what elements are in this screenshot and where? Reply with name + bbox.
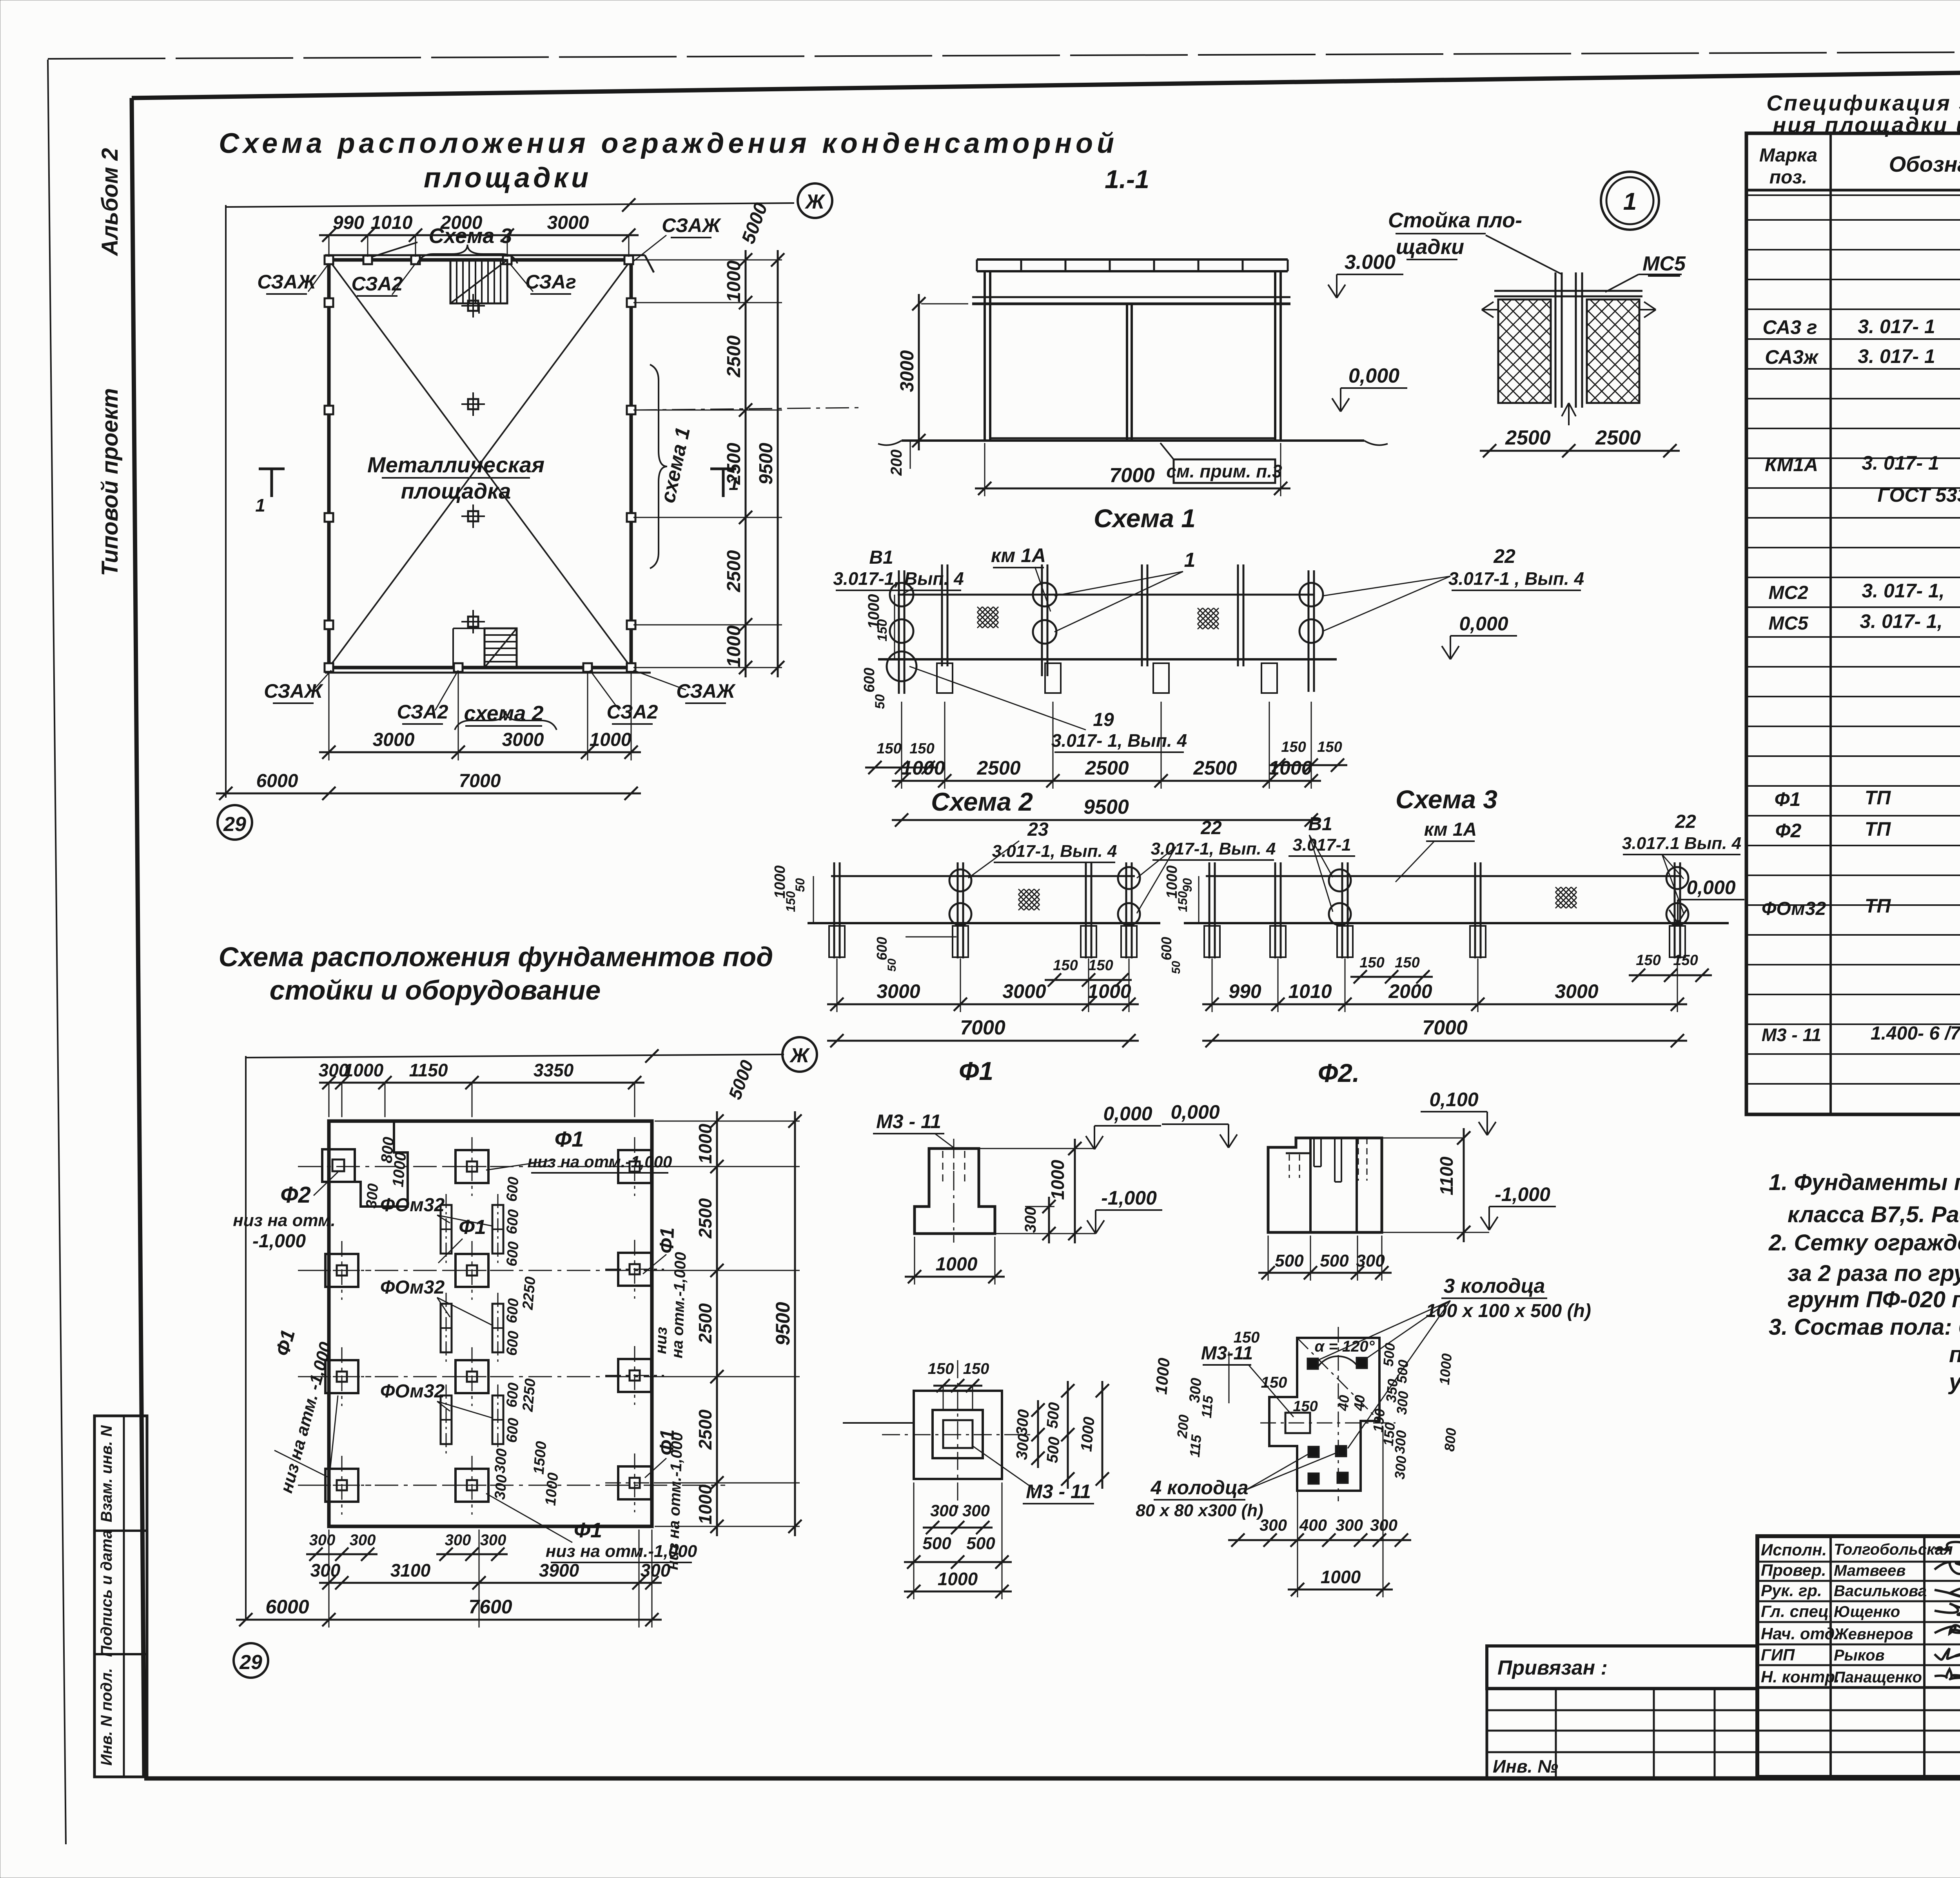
svg-text:площадки: площадки [424, 162, 592, 194]
svg-text:ФОм32: ФОм32 [380, 1277, 445, 1298]
svg-text:300: 300 [363, 1183, 381, 1209]
svg-text:1. Фундаменты под столбы ог: 1. Фундаменты под столбы ограждения выпо… [1769, 1170, 1960, 1195]
svg-text:3 колодца: 3 колодца [1444, 1275, 1545, 1297]
F1 anchor dashes [942, 1151, 944, 1182]
svg-text:подстилающий слой из бетона: подстилающий слой из бетона класса В7,5 … [1949, 1342, 1960, 1367]
svg-text:2250: 2250 [519, 1378, 539, 1413]
F1 foundation outline [915, 1149, 995, 1234]
svg-text:40: 40 [1335, 1394, 1352, 1412]
svg-text:90: 90 [1180, 878, 1194, 892]
section 1-1 ground line [902, 439, 1364, 442]
svg-text:М3 - 11: М3 - 11 [1026, 1481, 1091, 1502]
svg-text:Схема 3: Схема 3 [1396, 785, 1497, 814]
svg-text:300: 300 [445, 1531, 471, 1549]
svg-text:3. 017- 1,: 3. 017- 1, [1862, 580, 1944, 602]
svg-text:300: 300 [350, 1531, 376, 1549]
svg-text:1000: 1000 [901, 757, 945, 779]
schema3 dims [1202, 1003, 1687, 1005]
svg-text:50: 50 [873, 694, 887, 709]
plan1 fence bottom double line [325, 672, 651, 674]
svg-text:Гл. спец.: Гл. спец. [1761, 1602, 1833, 1620]
svg-text:300: 300 [1392, 1455, 1410, 1480]
schema3 circles [1329, 869, 1351, 891]
svg-text:3100: 3100 [390, 1560, 431, 1580]
svg-text:3000: 3000 [502, 729, 544, 750]
section 1-1 elevation marks [1337, 274, 1403, 275]
svg-text:300: 300 [1392, 1430, 1410, 1454]
svg-text:ГИП: ГИП [1761, 1646, 1795, 1664]
svg-text:Стойка пло-: Стойка пло- [1388, 209, 1522, 232]
svg-text:Ф2: Ф2 [1775, 820, 1802, 842]
svg-text:6000: 6000 [265, 1596, 309, 1618]
F1 elevation marks [1094, 1125, 1161, 1127]
node hatched concrete [1498, 299, 1551, 403]
plan2 axis dashdot lines [298, 1166, 725, 1167]
plan2 left vertical line [245, 1056, 247, 1620]
F1 bottom dim [905, 1276, 1005, 1278]
svg-text:300: 300 [930, 1501, 958, 1520]
section 1-1 left dim 3000 [918, 294, 920, 450]
svg-text:2500: 2500 [724, 443, 744, 485]
svg-text:1000: 1000 [343, 1060, 384, 1080]
svg-text:150: 150 [909, 740, 934, 757]
plan2 F2 top-left foundation [330, 1123, 408, 1207]
schema2 circles [949, 869, 971, 891]
svg-text:150: 150 [1636, 952, 1661, 969]
svg-text:1010: 1010 [371, 212, 413, 233]
node posts [1555, 272, 1557, 408]
plan2 FOm32 equipment foundations [441, 1205, 452, 1254]
svg-text:класса В7,5. Расход бетона: класса В7,5. Расход бетона на фундаменты… [1788, 1202, 1960, 1227]
plan1 axis line with Zh [226, 203, 794, 207]
detail 4-pocket foundation plan [1269, 1338, 1379, 1491]
svg-text:Матвеев: Матвеев [1834, 1562, 1906, 1579]
svg-text:7000: 7000 [1109, 464, 1155, 487]
svg-text:Типовой проект: Типовой проект [97, 388, 123, 576]
svg-text:50: 50 [1170, 961, 1183, 974]
svg-text:80 х 80 х300 (h): 80 х 80 х300 (h) [1136, 1501, 1263, 1520]
svg-text:29: 29 [239, 1651, 262, 1674]
svg-text:Альбом 2: Альбом 2 [97, 148, 123, 256]
F2 anchor marks [1289, 1154, 1290, 1178]
svg-text:Ф1: Ф1 [1775, 788, 1801, 810]
svg-text:М3 - 11: М3 - 11 [1762, 1025, 1822, 1045]
svg-text:1500: 1500 [530, 1441, 550, 1475]
svg-text:Схема расположения фундамент: Схема расположения фундаментов под [219, 942, 773, 972]
svg-text:150: 150 [963, 1360, 989, 1377]
svg-text:М3 - 11: М3 - 11 [876, 1110, 941, 1132]
svg-text:300: 300 [480, 1531, 506, 1549]
svg-text:150: 150 [928, 1360, 954, 1377]
svg-text:1000: 1000 [695, 1484, 715, 1524]
svg-text:км 1А: км 1А [991, 544, 1046, 566]
svg-text:600: 600 [874, 937, 890, 960]
svg-text:3.017-1, Вып. 4: 3.017-1, Вып. 4 [1151, 839, 1276, 858]
svg-text:500: 500 [1044, 1402, 1063, 1429]
svg-text:300: 300 [1394, 1390, 1412, 1415]
svg-text:300: 300 [1013, 1433, 1033, 1461]
svg-text:уплотненный со щебнем грунт: уплотненный со щебнем грунт - 40 мм. [1948, 1369, 1960, 1395]
svg-text:см. прим. п.3: см. прим. п.3 [1166, 461, 1282, 481]
svg-text:Провер.: Провер. [1761, 1561, 1826, 1579]
schema1 dims [892, 780, 1321, 782]
svg-text:Ж: Ж [804, 191, 826, 213]
F1 right dim 1000 [1074, 1139, 1076, 1243]
svg-text:2000: 2000 [1388, 980, 1432, 1002]
svg-text:1150: 1150 [409, 1060, 448, 1080]
svg-text:2500: 2500 [1193, 757, 1237, 779]
F2 right dim 1100 [1463, 1128, 1465, 1242]
svg-text:3000: 3000 [877, 980, 920, 1002]
margin stamp boxes [94, 1416, 147, 1777]
svg-text:за 2 раза по грунту ПФ-02: за 2 раза по грунту ПФ-020. Эмаль ПФ-115… [1788, 1261, 1960, 1286]
svg-text:1000: 1000 [695, 1123, 715, 1164]
svg-text:3.017-1 , Вып. 4: 3.017-1 , Вып. 4 [1448, 568, 1584, 589]
svg-text:КМ1А: КМ1А [1765, 454, 1818, 475]
plan2 F1 squares [325, 1254, 358, 1287]
plan1 posts top [325, 256, 333, 264]
schema1 post foundation boxes [937, 663, 953, 693]
plan1 section mark T1 left [259, 468, 285, 470]
svg-text:3. 017- 1,: 3. 017- 1, [1860, 610, 1942, 632]
svg-text:200: 200 [888, 450, 905, 476]
title block outer [1757, 1536, 1960, 1777]
plan1 mid axis dashdot [633, 408, 858, 410]
schema1 rails [898, 594, 1313, 596]
svg-text:150: 150 [1088, 957, 1113, 974]
svg-text:ФОм32: ФОм32 [380, 1195, 445, 1216]
svg-text:1000: 1000 [542, 1472, 561, 1506]
plan1 top dims [319, 234, 639, 236]
svg-text:990: 990 [333, 212, 364, 233]
svg-text:400: 400 [1299, 1516, 1327, 1534]
svg-text:схема 2: схема 2 [464, 702, 543, 725]
svg-text:9500: 9500 [772, 1302, 794, 1345]
svg-text:150: 150 [1261, 1374, 1287, 1391]
svg-text:150: 150 [1053, 957, 1078, 974]
section 1-1 posts and panels [984, 271, 986, 441]
signature table [1829, 1536, 1832, 1777]
svg-text:2500: 2500 [724, 335, 744, 377]
svg-text:22: 22 [1493, 545, 1515, 567]
svg-text:ФОм32: ФОм32 [1762, 898, 1826, 919]
plan1 posts bottom [454, 663, 463, 672]
svg-text:Привязан :: Привязан : [1497, 1657, 1608, 1679]
svg-text:Спецификация элементов к: Спецификация элементов к схемам располож… [1766, 91, 1960, 115]
svg-text:500: 500 [922, 1534, 951, 1553]
svg-text:9500: 9500 [1083, 796, 1129, 818]
svg-text:1000: 1000 [1078, 1416, 1098, 1452]
svg-text:9500: 9500 [756, 443, 777, 484]
svg-text:Рыков: Рыков [1834, 1647, 1885, 1664]
plan1 posts right [627, 298, 635, 307]
svg-text:ТП: ТП [1865, 818, 1891, 840]
svg-text:ТП: ТП [1865, 895, 1891, 917]
node bottom arrow [1568, 403, 1570, 425]
svg-text:стойки и оборудование: стойки и оборудование [270, 975, 601, 1005]
spec table grid [1746, 133, 1960, 1114]
schema3 post foundation boxes [1204, 926, 1220, 957]
svg-text:Ф1: Ф1 [555, 1127, 584, 1151]
svg-text:Инв. №: Инв. № [1493, 1756, 1558, 1776]
svg-text:1000: 1000 [936, 1254, 978, 1275]
svg-text:площадка: площадка [401, 479, 511, 503]
svg-text:1: 1 [1184, 549, 1196, 572]
plan1 left vertical dim line [225, 205, 227, 798]
F2 bottom dims [1258, 1272, 1392, 1274]
svg-text:990: 990 [1229, 980, 1261, 1002]
svg-text:600: 600 [861, 668, 878, 692]
svg-text:Инв. N подл.: Инв. N подл. [98, 1668, 115, 1766]
svg-text:Ющенко: Ющенко [1834, 1603, 1900, 1620]
plan1 top stairs hatch [450, 260, 507, 303]
plan2 right dims [716, 1111, 718, 1536]
svg-text:115: 115 [1198, 1395, 1216, 1419]
svg-text:низ на отм.-1,000: низ на отм.-1,000 [528, 1152, 672, 1171]
plan1 bottom stairs [485, 628, 517, 668]
svg-text:В1: В1 [1308, 814, 1332, 835]
svg-text:2500: 2500 [724, 550, 744, 592]
svg-text:1000: 1000 [1047, 1159, 1068, 1200]
schema3 rails [1206, 875, 1682, 877]
svg-text:1000: 1000 [1087, 980, 1131, 1002]
svg-text:-1,000: -1,000 [1101, 1187, 1157, 1209]
svg-text:150: 150 [1395, 954, 1419, 971]
svg-text:3.017-1, Вып. 4: 3.017-1, Вып. 4 [833, 568, 964, 589]
svg-text:3.000: 3.000 [1345, 251, 1396, 274]
svg-text:3.017.1 Вып. 4: 3.017.1 Вып. 4 [1622, 834, 1741, 853]
svg-text:150: 150 [1281, 739, 1306, 755]
svg-text:150: 150 [1234, 1329, 1260, 1346]
section 1-1 dim 7000 [975, 488, 1290, 490]
svg-text:2500: 2500 [1595, 426, 1641, 449]
svg-text:150: 150 [1317, 739, 1342, 755]
section 1-1 top rail [977, 258, 1288, 261]
main drawing frame [132, 65, 1960, 98]
svg-text:Ж: Ж [789, 1044, 810, 1067]
svg-text:2500: 2500 [695, 1198, 715, 1239]
svg-text:50: 50 [793, 878, 807, 892]
svg-text:Подпись и дата: Подпись и дата [98, 1530, 115, 1657]
svg-text:300: 300 [492, 1474, 510, 1501]
svg-text:3. 017- 1: 3. 017- 1 [1858, 345, 1935, 367]
svg-text:МС5: МС5 [1642, 252, 1686, 275]
schema3 posts [1209, 862, 1210, 958]
svg-text:Н. контр.: Н. контр. [1761, 1668, 1840, 1686]
svg-text:Марка: Марка [1759, 145, 1817, 166]
svg-text:0,000: 0,000 [1348, 365, 1399, 387]
svg-text:Ф2: Ф2 [280, 1182, 311, 1208]
svg-text:3.017- 1, Вып. 4: 3.017- 1, Вып. 4 [1051, 730, 1187, 751]
svg-text:1100: 1100 [1436, 1156, 1457, 1195]
svg-text:щадки: щадки [1396, 235, 1464, 259]
svg-text:7000: 7000 [960, 1016, 1005, 1039]
svg-text:300: 300 [962, 1501, 990, 1520]
svg-text:Ф2.: Ф2. [1318, 1058, 1360, 1087]
svg-text:СЗАЖ: СЗАЖ [264, 680, 323, 702]
node rails [1494, 290, 1642, 292]
svg-text:23: 23 [1027, 819, 1049, 840]
svg-text:115: 115 [1187, 1434, 1205, 1458]
svg-text:600: 600 [503, 1176, 522, 1203]
F2 outline [1268, 1138, 1382, 1232]
svg-text:низ на отм.: низ на отм. [233, 1211, 336, 1230]
node detail circle 1 [1601, 172, 1659, 230]
svg-text:низ: низ [652, 1326, 670, 1354]
svg-text:600: 600 [503, 1417, 522, 1444]
svg-text:22: 22 [1675, 811, 1696, 832]
svg-text:1000: 1000 [590, 729, 632, 750]
svg-text:500: 500 [966, 1534, 995, 1553]
plan1 bottom dims [319, 751, 641, 753]
svg-text:СА3 г: СА3 г [1762, 316, 1817, 338]
svg-text:3000: 3000 [1555, 980, 1598, 1002]
svg-text:600: 600 [503, 1382, 522, 1408]
svg-text:500: 500 [1044, 1436, 1063, 1464]
plan2 bottom dims [319, 1582, 662, 1584]
svg-text:4 колодца: 4 колодца [1151, 1477, 1249, 1499]
svg-text:Василькова: Василькова [1834, 1582, 1927, 1600]
svg-text:2500: 2500 [1085, 757, 1129, 779]
svg-text:2250: 2250 [519, 1276, 539, 1311]
svg-text:2000: 2000 [440, 212, 483, 233]
svg-text:поз.: поз. [1769, 167, 1807, 188]
svg-text:22: 22 [1200, 818, 1222, 838]
schema1 circles [890, 583, 913, 606]
plan2 axis line Zh [246, 1054, 784, 1058]
svg-text:2500: 2500 [976, 757, 1020, 779]
svg-text:-1,000: -1,000 [252, 1231, 306, 1252]
svg-text:СА3ж: СА3ж [1765, 346, 1819, 368]
sm prim p3 box [1174, 459, 1275, 483]
plan2 top dims [319, 1082, 644, 1084]
sheet outer thin border [48, 60, 66, 1844]
svg-text:низ на отм.-1,000: низ на отм.-1,000 [546, 1542, 697, 1561]
svg-text:0,100: 0,100 [1429, 1089, 1478, 1110]
svg-text:150: 150 [1176, 891, 1190, 912]
svg-text:500: 500 [1394, 1359, 1412, 1384]
svg-text:1000: 1000 [1436, 1353, 1455, 1385]
svg-text:0,000: 0,000 [1459, 613, 1508, 635]
svg-text:7000: 7000 [1422, 1016, 1468, 1039]
F2 elevation marks [1162, 1123, 1229, 1125]
svg-text:300: 300 [492, 1448, 510, 1474]
svg-text:1000: 1000 [724, 625, 744, 667]
ground breaks [878, 441, 902, 445]
svg-text:Схема 2: Схема 2 [931, 787, 1033, 816]
svg-text:0,000: 0,000 [1103, 1103, 1152, 1125]
svg-text:1000: 1000 [1321, 1567, 1361, 1587]
svg-text:ТП: ТП [1865, 787, 1891, 809]
svg-text:600: 600 [503, 1241, 522, 1267]
svg-text:1.400- 6 /76: 1.400- 6 /76 [1871, 1023, 1960, 1044]
svg-text:300: 300 [310, 1560, 341, 1580]
plan1 fence top double line [325, 254, 645, 256]
svg-text:грунт ПФ-020 по ГОСТ 18186: грунт ПФ-020 по ГОСТ 18186- 79*. [1788, 1287, 1960, 1312]
svg-text:1000: 1000 [938, 1569, 978, 1589]
svg-text:600: 600 [1158, 937, 1174, 960]
svg-text:300: 300 [1013, 1409, 1033, 1436]
schema2 hatch [1018, 889, 1024, 895]
svg-text:300: 300 [1336, 1516, 1363, 1534]
plan1 posts left [325, 298, 333, 307]
svg-text:МС2: МС2 [1768, 582, 1808, 603]
svg-text:0,000: 0,000 [1686, 876, 1735, 898]
plan2 axis circle 29 [234, 1643, 268, 1678]
schema1 hatch patches [977, 607, 982, 612]
svg-text:3000: 3000 [547, 212, 589, 233]
svg-text:1000: 1000 [1152, 1357, 1173, 1395]
svg-text:1.-1: 1.-1 [1105, 165, 1149, 194]
svg-text:Ф1: Ф1 [459, 1216, 486, 1239]
svg-text:Схема 1: Схема 1 [1094, 504, 1196, 533]
svg-text:3000: 3000 [373, 729, 415, 750]
svg-text:Обозначение: Обозначение [1889, 152, 1960, 176]
svg-text:МС5: МС5 [1768, 613, 1809, 634]
svg-text:1: 1 [1623, 188, 1637, 215]
svg-text:-1,000: -1,000 [1495, 1183, 1550, 1205]
schema2 rails [831, 875, 1135, 877]
svg-text:800: 800 [1441, 1427, 1459, 1452]
svg-text:500: 500 [1320, 1251, 1349, 1270]
svg-text:300: 300 [1259, 1516, 1287, 1534]
svg-text:1000: 1000 [724, 260, 744, 302]
svg-text:40: 40 [1350, 1394, 1368, 1412]
plan1 axis circle 29 [218, 805, 252, 840]
svg-text:Жевнеров: Жевнеров [1833, 1626, 1913, 1643]
svg-text:7600: 7600 [468, 1596, 512, 1618]
node dims 2500 2500 [1480, 450, 1680, 452]
svg-text:3. 017- 1: 3. 017- 1 [1858, 316, 1935, 337]
svg-text:500: 500 [1275, 1251, 1304, 1270]
svg-text:300: 300 [1356, 1251, 1385, 1270]
plan2 outline [329, 1121, 652, 1526]
privyazan box [1487, 1646, 1757, 1689]
svg-text:1010: 1010 [1288, 980, 1332, 1002]
schema3 hatch [1555, 887, 1561, 892]
svg-text:Ф1: Ф1 [574, 1519, 602, 1542]
svg-text:0,000: 0,000 [1171, 1101, 1220, 1123]
svg-text:Ф1: Ф1 [655, 1227, 678, 1254]
svg-text:Схема расположения огражде: Схема расположения ограждения конденсато… [219, 128, 1118, 159]
svg-text:3. Состав пола: бетон клас: 3. Состав пола: бетон класса В15- 30 мм [1769, 1314, 1960, 1340]
svg-text:3000: 3000 [1002, 980, 1046, 1002]
svg-text:2. Сетку ограждения окраси: 2. Сетку ограждения окрасить эмалью ПФ-1… [1768, 1230, 1960, 1256]
svg-text:600: 600 [503, 1209, 522, 1235]
svg-text:100 х 100 х 500 (h): 100 х 100 х 500 (h) [1426, 1301, 1591, 1321]
schema1 posts [898, 570, 900, 694]
svg-text:3.017-1: 3.017-1 [1292, 835, 1351, 855]
plan1 interior center posts [461, 305, 485, 307]
svg-text:6000: 6000 [256, 771, 298, 791]
svg-text:150: 150 [875, 619, 890, 642]
svg-text:1000: 1000 [1269, 757, 1312, 779]
svg-text:150: 150 [1359, 954, 1384, 971]
section 1-1 deck lines [972, 296, 1290, 298]
svg-text:Взам. инв. N: Взам. инв. N [98, 1425, 115, 1522]
svg-text:19: 19 [1093, 709, 1114, 730]
plan1 diagonals [329, 260, 631, 668]
svg-text:300: 300 [309, 1531, 336, 1549]
svg-text:50: 50 [886, 958, 898, 972]
svg-text:Панащенко: Панащенко [1834, 1669, 1922, 1686]
svg-text:Рук. гр.: Рук. гр. [1761, 1581, 1822, 1600]
svg-text:2500: 2500 [695, 1303, 715, 1344]
svg-text:2500: 2500 [695, 1409, 715, 1450]
svg-text:СЗАЖ: СЗАЖ [676, 680, 736, 702]
svg-text:150: 150 [1293, 1398, 1318, 1415]
svg-text:300: 300 [1022, 1207, 1039, 1233]
